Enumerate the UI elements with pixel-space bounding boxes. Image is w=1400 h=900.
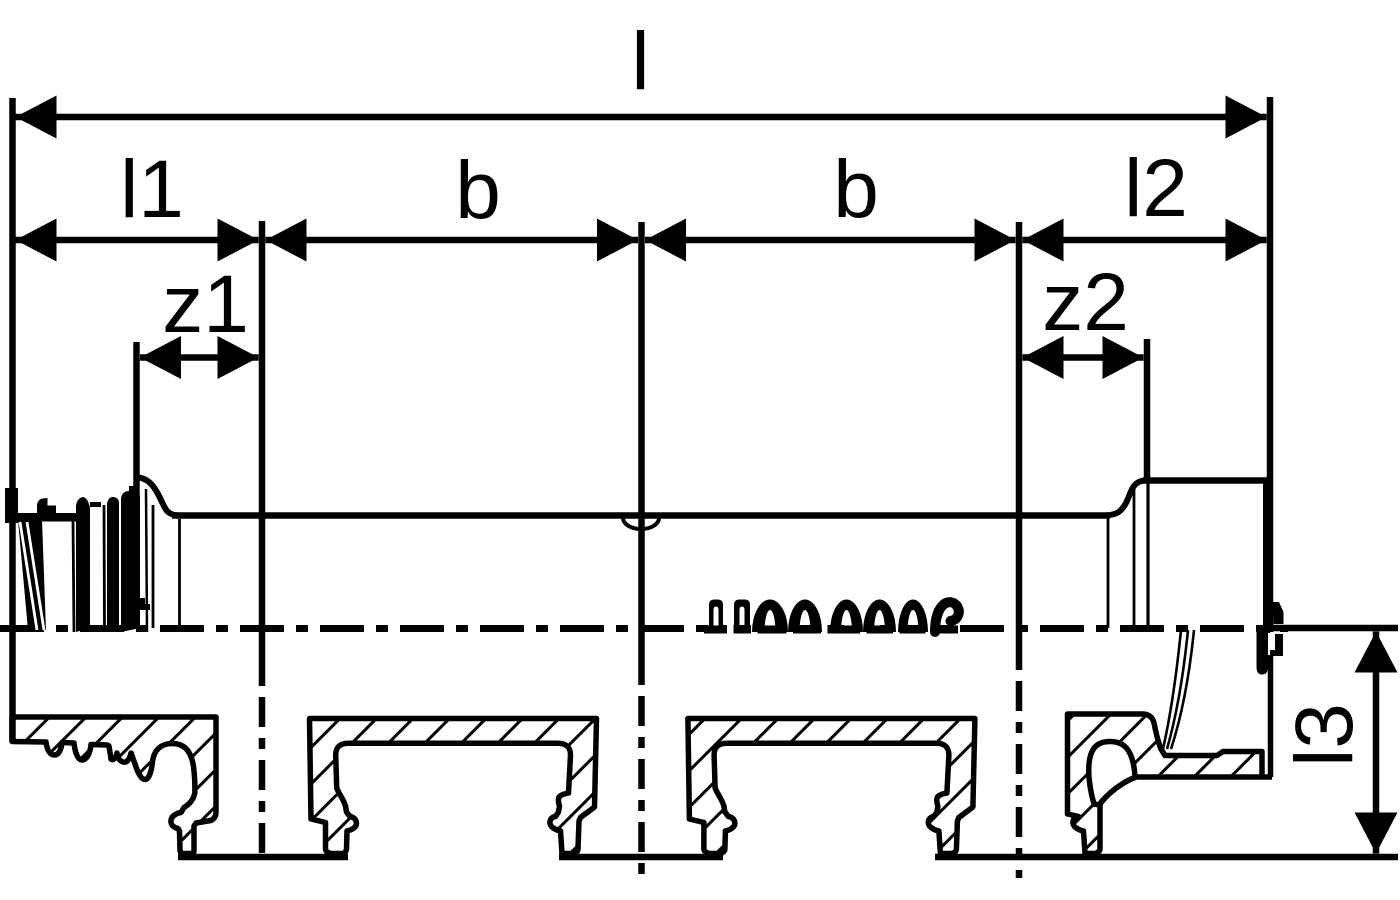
extension line z1 left x=136.5 <box>133 342 140 497</box>
extension line z2 right x=1147 <box>1144 339 1151 481</box>
section D bottom edge short extension <box>1262 774 1272 780</box>
extension line b/b boundary x=641.5 dash-dot part <box>638 682 645 880</box>
extension line b/l2 boundary x=1019 dash-dot part <box>1016 667 1023 878</box>
left end rib B cap tick <box>90 502 101 507</box>
arrowhead l2 left <box>1023 219 1064 262</box>
section D wall (hatched) <box>1068 714 1263 854</box>
svg-text:b: b <box>833 144 879 235</box>
arrowhead l left <box>16 96 57 139</box>
left end rib B <box>76 497 90 632</box>
label b second <box>833 144 879 235</box>
arrowhead l3 up <box>1355 632 1398 673</box>
dimension line l <box>16 114 1267 121</box>
arrowhead b1 left <box>266 219 307 262</box>
arrowhead z1 left <box>140 336 181 379</box>
grip ring nub outside right edge (above centre line) <box>1273 602 1284 624</box>
dimension line z2 <box>1023 354 1144 361</box>
arrowhead b1 right <box>597 219 638 262</box>
arrowhead l1 left <box>16 219 57 262</box>
corrugation squiggle on centre line <box>704 600 959 635</box>
section base line segment 1 (A foot to B left leg) <box>178 854 348 861</box>
dimension line b second <box>645 237 1016 244</box>
fitting right end step face (under z2) <box>1146 481 1149 628</box>
arrowhead l2 right <box>1226 219 1267 262</box>
extension line l3 top y=628 <box>1272 625 1398 632</box>
left end small notch <box>137 598 150 610</box>
label l1 <box>120 144 184 235</box>
extension line l1/b boundary x=262 solid part <box>259 221 266 683</box>
svg-text:b: b <box>455 145 501 236</box>
fitting right end outer edge <box>1263 480 1270 633</box>
left end thin rib line 3 <box>146 489 147 632</box>
section C wall (hatched) <box>688 719 975 854</box>
left end rib C <box>107 497 119 632</box>
dimension line l2 <box>1023 237 1267 244</box>
fitting left shoulder S-curve <box>138 478 178 516</box>
left end thin rib line 2 <box>103 505 106 632</box>
arrowhead z1 right <box>218 336 259 379</box>
svg-text:l3: l3 <box>1279 703 1370 767</box>
label l <box>631 16 649 107</box>
thin edge line right x=1108 <box>1107 518 1110 628</box>
left end lip block <box>5 488 18 523</box>
thin edge line left x=179.5 <box>178 519 181 628</box>
svg-text:l: l <box>631 16 649 107</box>
arrowhead z2 right <box>1103 336 1144 379</box>
left end rib A block <box>37 498 56 514</box>
fitting right end top edge <box>1143 477 1267 484</box>
fitting body weld notch arc at centre <box>623 518 659 529</box>
section A wall (hatched) <box>12 717 216 854</box>
dimension line l3 <box>1373 632 1380 854</box>
arrowhead b2 left <box>645 219 686 262</box>
thin edge line right x=1134 <box>1133 487 1136 628</box>
svg-text:z1: z1 <box>162 259 249 350</box>
fitting right shoulder S-curve <box>1106 481 1144 516</box>
svg-text:z2: z2 <box>1042 257 1129 348</box>
extension line b/l2 boundary x=1019 solid part <box>1016 222 1023 667</box>
svg-text:l2: l2 <box>1124 143 1188 234</box>
thin edge line left x=153 <box>152 505 155 628</box>
section base line segment 2 (B right leg to C left leg) <box>559 854 723 861</box>
grip ring hook section (filled) <box>1257 628 1269 675</box>
dimension line z1 <box>140 354 259 361</box>
dimension line l1 <box>16 237 259 244</box>
extension line l1/b boundary x=262 dash-dot part <box>259 683 266 863</box>
arrowhead l1 right <box>218 219 259 262</box>
label l3 <box>1279 703 1370 767</box>
fitting body top outline <box>172 512 1110 519</box>
label b first <box>455 145 501 236</box>
extension line left (l / l1 start) x=12.5 <box>9 98 16 741</box>
label z1 <box>162 259 249 350</box>
section B wall (hatched) <box>310 719 597 854</box>
funnel swirl thin curves in right end section <box>1163 630 1194 749</box>
section D dome cavity (white) <box>1089 742 1136 806</box>
dimension line b first <box>266 237 639 244</box>
svg-text:l1: l1 <box>120 144 184 235</box>
extension line b/b boundary x=641.5 solid part <box>638 222 645 682</box>
left end striped wedge <box>18 520 46 630</box>
grip ring step block below centre line <box>1270 634 1283 656</box>
left end rib D tall <box>121 486 140 632</box>
section D outer right edge below centre line <box>1268 655 1274 777</box>
extension line right (l / l2 end) x=1270 <box>1267 97 1274 632</box>
center line horizontal dash-dot <box>0 625 1288 632</box>
arrowhead l3 down <box>1355 813 1398 854</box>
left end rim band <box>18 513 76 522</box>
extension line l3 bottom / base line segment 3 (C right leg to l3) <box>935 854 1398 861</box>
arrowhead b2 right <box>975 219 1016 262</box>
left end thin rib line 1 <box>73 520 74 632</box>
label l2 <box>1124 143 1188 234</box>
arrowhead l right <box>1226 96 1267 139</box>
label z2 <box>1042 257 1129 348</box>
arrowhead z2 left <box>1023 336 1064 379</box>
